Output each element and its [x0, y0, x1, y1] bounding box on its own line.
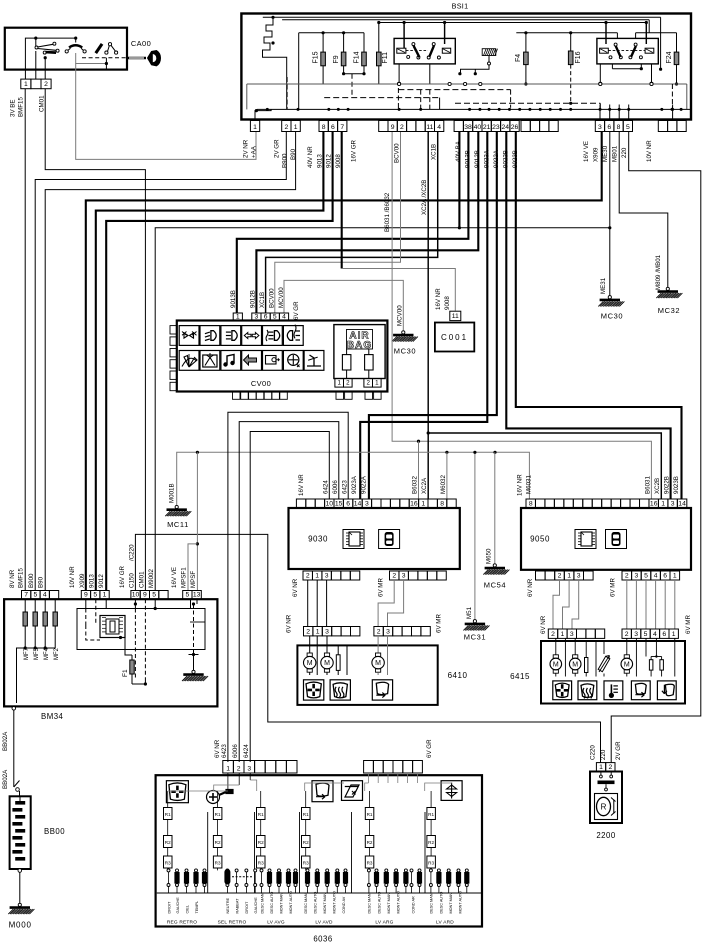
svg-text:BMF15: BMF15 — [18, 567, 25, 588]
6410 icon mirror heating — [330, 680, 350, 700]
BM34 internal ground — [192, 670, 195, 673]
svg-text:F15: F15 — [313, 51, 320, 63]
module 9030 box — [289, 508, 460, 569]
wire 9008 (BSI pin7 to C001 pin11) — [341, 132, 343, 269]
svg-text:3: 3 — [386, 628, 390, 635]
BM34 fuse bus — [20, 647, 55, 649]
rear view mirror unit 6410 box — [297, 645, 437, 705]
svg-text:6V GR: 6V GR — [293, 301, 300, 320]
svg-text:3: 3 — [634, 631, 638, 638]
6036 group partitions — [207, 812, 209, 893]
svg-text:6410: 6410 — [448, 671, 468, 680]
svg-text:F16: F16 — [575, 51, 582, 63]
svg-text:9008: 9008 — [335, 154, 342, 168]
svg-text:2: 2 — [306, 572, 310, 579]
switch contact 3 — [95, 43, 104, 54]
svg-text:C150: C150 — [129, 573, 136, 588]
svg-text:9022B: 9022B — [503, 150, 510, 168]
switch3 stub to box bottom — [105, 64, 107, 70]
svg-text:6: 6 — [663, 572, 667, 579]
svg-text:9012B: 9012B — [250, 290, 257, 308]
wire C220 (BM34 pin10 to 2200 pin1) — [135, 534, 600, 762]
plus-tick pins — [599, 105, 601, 121]
svg-text:2V GR: 2V GR — [615, 741, 622, 760]
icon front fog — [263, 326, 283, 346]
svg-text:5: 5 — [34, 592, 38, 599]
svg-text:16V VE: 16V VE — [171, 567, 178, 588]
svg-text:B90: B90 — [38, 576, 45, 588]
svg-text:M000: M000 — [9, 921, 32, 930]
svg-text:8: 8 — [617, 124, 621, 131]
svg-text:DESC AUTO: DESC AUTO — [270, 892, 274, 914]
9050 top pins — [526, 499, 535, 508]
svg-text:6: 6 — [346, 500, 350, 507]
svg-text:BMF15: BMF15 — [18, 96, 25, 117]
svg-text:B90: B90 — [290, 148, 297, 160]
svg-text:3: 3 — [247, 765, 251, 772]
svg-text:2V GR: 2V GR — [274, 139, 281, 158]
svg-text:BB02A: BB02A — [2, 731, 9, 751]
svg-text:16V GR: 16V GR — [119, 565, 126, 588]
svg-text:6V NR: 6V NR — [540, 615, 547, 634]
BM34 output to battery — [12, 707, 16, 711]
9050 chip icon — [575, 530, 596, 549]
ground MC30 (right) — [608, 296, 611, 299]
wire +AA inside CA00 — [76, 53, 107, 64]
battery BB00 — [10, 796, 31, 869]
6036 icon window — [342, 781, 363, 801]
BSI1 box — [241, 14, 691, 120]
2200 pins 1,2 — [596, 763, 605, 772]
icon high beam — [221, 326, 241, 346]
svg-text:40: 40 — [474, 124, 482, 131]
svg-text:NEUTRE: NEUTRE — [226, 897, 230, 913]
svg-text:7: 7 — [24, 592, 28, 599]
svg-text:R: R — [601, 803, 607, 812]
svg-text:23: 23 — [492, 124, 500, 131]
BM34 top pins group4 5,13 — [183, 591, 192, 600]
svg-text:16V NR: 16V NR — [435, 288, 442, 310]
svg-text:BM34: BM34 — [41, 712, 64, 721]
svg-text:F11: F11 — [382, 52, 389, 64]
wire MCV00 (CV00 pin4 to ground MC30) gray — [284, 280, 403, 331]
svg-text:6423: 6423 — [221, 744, 228, 758]
svg-text:2: 2 — [366, 380, 370, 387]
svg-text:1: 1 — [236, 313, 240, 320]
wires 9050 bottom left to 6415 jogs — [553, 580, 560, 629]
door switch panel 6036 box — [156, 775, 482, 926]
svg-text:M: M — [624, 662, 630, 669]
key mechanical dashed link — [82, 57, 127, 59]
svg-text:3: 3 — [402, 572, 406, 579]
svg-text:5: 5 — [93, 592, 97, 599]
6036 top right pins — [364, 761, 374, 774]
svg-text:6006: 6006 — [332, 480, 339, 494]
svg-text:4: 4 — [282, 313, 286, 320]
svg-text:MC32: MC32 — [658, 306, 680, 315]
icon wiper — [179, 351, 199, 371]
svg-text:1: 1 — [24, 81, 28, 88]
svg-text:R1: R1 — [303, 812, 309, 817]
svg-text:C001: C001 — [441, 333, 468, 342]
svg-text:DESC AUTO: DESC AUTO — [377, 892, 381, 914]
BSI bottom rail — [257, 108, 690, 110]
ground MC11 — [175, 505, 178, 508]
wire 9012 (BSI pin6 to BM34 pin1) — [106, 132, 332, 591]
svg-text:X909: X909 — [593, 147, 600, 162]
svg-text:CIEL: CIEL — [185, 905, 189, 913]
wire MPSF (rail to BM34 pin13) — [196, 452, 198, 590]
6036 switch group LV ARG — [365, 808, 374, 820]
AIRBAG sub box — [334, 325, 385, 379]
BM34 fuse MF7 — [24, 599, 26, 638]
svg-text:REG RETRO: REG RETRO — [167, 920, 197, 926]
svg-text:8: 8 — [322, 124, 326, 131]
6415 double element — [649, 660, 653, 670]
wire 9023B (BSI pin26 to 9050 pin14) — [516, 132, 682, 500]
svg-text:14: 14 — [354, 500, 362, 507]
svg-text:BSI1: BSI1 — [452, 2, 469, 11]
6410 top pins — [304, 627, 313, 636]
svg-text:6424: 6424 — [323, 480, 330, 494]
ground MC32 — [666, 287, 669, 290]
svg-text:MONT MAN: MONT MAN — [323, 893, 327, 914]
svg-text:DESC AUTO: DESC AUTO — [313, 892, 317, 914]
wire MB01 (BSI pin8 to ground MC32) — [619, 132, 668, 288]
svg-text:M6031: M6031 — [526, 475, 533, 494]
svg-text:M: M — [553, 662, 559, 669]
BSI connector pins row — [250, 121, 259, 132]
wire XC2B (branch to 9050 pin1) — [427, 431, 430, 434]
6415 motor 3 — [621, 658, 633, 670]
svg-text:3: 3 — [255, 313, 259, 320]
svg-text:9: 9 — [143, 592, 147, 599]
9050 bottom pins right — [622, 571, 632, 580]
icon low beam — [200, 326, 220, 346]
6036 icon window double — [441, 781, 462, 801]
svg-text:15: 15 — [335, 500, 343, 507]
icon washer — [200, 351, 220, 371]
svg-text:11: 11 — [426, 124, 433, 131]
6410 motor 2 — [321, 656, 333, 668]
svg-text:R3: R3 — [367, 861, 373, 866]
svg-text:3: 3 — [325, 628, 329, 635]
wire XC1B (BSI pin4 to CV00 pin6) — [266, 132, 438, 314]
wire M6032 branch to 9030 pin8 — [446, 452, 448, 499]
9030 bottom pins left — [303, 571, 312, 580]
9050 bottom pins left — [536, 571, 546, 580]
svg-text:8V NR: 8V NR — [9, 569, 16, 588]
svg-text:38: 38 — [464, 124, 472, 131]
icon indicator stalk — [242, 351, 262, 371]
svg-text:R2: R2 — [165, 840, 171, 845]
svg-text:7: 7 — [340, 124, 344, 131]
svg-text:F14: F14 — [354, 51, 361, 63]
battery feed zigzag — [271, 16, 274, 19]
svg-text:3: 3 — [325, 572, 329, 579]
module 9050 box — [521, 508, 691, 570]
svg-text:2V NR: 2V NR — [243, 139, 250, 158]
svg-text:1: 1 — [567, 572, 571, 579]
svg-text:R2: R2 — [215, 840, 221, 845]
fuse F15 — [299, 32, 364, 34]
svg-text:9012: 9012 — [98, 574, 105, 588]
svg-text:4: 4 — [43, 592, 47, 599]
svg-text:CM01: CM01 — [139, 571, 146, 588]
svg-text:8: 8 — [440, 500, 444, 507]
svg-text:2: 2 — [346, 380, 350, 387]
fuse F16 — [570, 33, 572, 51]
svg-text:6: 6 — [662, 631, 666, 638]
svg-text:R1: R1 — [165, 812, 171, 817]
svg-text:9023B: 9023B — [673, 476, 680, 494]
6036 switch group SEL RETRO — [213, 808, 222, 820]
svg-text:MONT MAN: MONT MAN — [387, 893, 391, 914]
svg-text:11: 11 — [452, 313, 459, 320]
svg-text:1: 1 — [337, 380, 341, 387]
svg-text:24: 24 — [501, 124, 509, 131]
svg-text:1: 1 — [421, 500, 425, 507]
svg-text:DESC MAN: DESC MAN — [368, 893, 372, 913]
svg-text:6V MR: 6V MR — [685, 615, 692, 634]
wire M51 to ground MC31 — [474, 452, 476, 621]
6415 internal wires — [555, 638, 557, 654]
svg-text:GAUCHE: GAUCHE — [254, 897, 258, 914]
hatched resistor — [482, 49, 497, 56]
C001 box — [435, 323, 474, 352]
svg-text:GAUCHE: GAUCHE — [176, 897, 180, 914]
svg-text:M650: M650 — [486, 548, 493, 564]
svg-text:MCV00: MCV00 — [397, 305, 404, 326]
svg-text:/C220: /C220 — [129, 544, 136, 561]
svg-text:LV AVD: LV AVD — [315, 920, 333, 926]
svg-text:MONT AUTO: MONT AUTO — [397, 891, 401, 913]
svg-text:1: 1 — [673, 572, 677, 579]
svg-text:9012: 9012 — [326, 154, 333, 168]
airbag bottom teeth — [336, 392, 344, 400]
BM34 top pins group1 7,5,4 — [22, 591, 31, 600]
svg-text:1: 1 — [315, 572, 319, 579]
svg-text:40V BA: 40V BA — [455, 140, 462, 162]
wire B6031/B6032 (BSI pin9 to 9030 pin16 and 9050 pin16) gray — [392, 132, 651, 500]
svg-text:9013B: 9013B — [230, 290, 237, 308]
svg-text:6036: 6036 — [313, 935, 332, 944]
wire ME30 (BSI pin6 to ground MC30 right) — [609, 132, 611, 297]
svg-text:1: 1 — [103, 592, 107, 599]
svg-text:5: 5 — [152, 592, 156, 599]
svg-text:6424: 6424 — [243, 744, 250, 758]
svg-text:M6032: M6032 — [440, 475, 447, 494]
svg-text:B6031 /B6032: B6031 /B6032 — [384, 192, 391, 232]
6410 icon mirror fold — [372, 680, 392, 700]
svg-text:9050: 9050 — [530, 535, 550, 544]
2200 switch — [600, 775, 603, 778]
airbag squib 1 — [342, 355, 351, 370]
svg-text:5: 5 — [185, 592, 189, 599]
svg-text:6V MR: 6V MR — [436, 614, 443, 633]
svg-text:16V VE: 16V VE — [583, 141, 590, 162]
svg-text:6V NR: 6V NR — [292, 578, 299, 597]
BM34 MPSF dashed to ground — [190, 599, 192, 608]
icon wiper arm — [304, 351, 324, 371]
6415 icon thermometer — [604, 681, 623, 700]
BM34 relay chip — [100, 616, 125, 638]
svg-text:ME30: ME30 — [602, 145, 609, 162]
svg-text:14: 14 — [678, 500, 686, 507]
wire B90 (BSI pin1 to BM34 pin4) — [45, 132, 295, 591]
svg-text:DESC AUTO: DESC AUTO — [439, 892, 443, 914]
airbag squib 2 — [365, 355, 374, 370]
svg-text:R1: R1 — [367, 812, 373, 817]
battery connection blade — [14, 781, 20, 788]
wires 9050 bottom right to 6415 — [626, 580, 628, 629]
wire 9022B (BSI pin24 to 9050 pin3) — [506, 132, 670, 500]
wire XC2A (BSI pin11 to 9030 pin1) — [427, 132, 429, 500]
6415 icon mirror adjust — [553, 681, 572, 700]
svg-text:XC2B: XC2B — [654, 478, 661, 494]
CV00 bottom teeth — [233, 392, 241, 400]
wires 9030 bottom left to 6410 — [307, 580, 309, 627]
svg-text:XC2A: XC2A — [421, 477, 428, 494]
svg-text:XC1B: XC1B — [259, 292, 266, 308]
fuse F4 — [516, 32, 617, 34]
wire BB02A — [13, 710, 15, 787]
svg-text:BCV00: BCV00 — [269, 288, 276, 308]
svg-text:MC54: MC54 — [484, 581, 506, 590]
6415 thermistor — [598, 656, 610, 671]
svg-text:+AA: +AA — [251, 145, 258, 158]
svg-text:16: 16 — [650, 500, 658, 507]
6415 top pins — [548, 629, 557, 638]
BSI gray rail — [247, 83, 687, 85]
svg-text:MPSF1: MPSF1 — [181, 567, 188, 588]
svg-text:R1: R1 — [428, 812, 434, 817]
ground MC54 — [493, 564, 496, 567]
svg-text:3V BE: 3V BE — [10, 99, 17, 117]
svg-text:CA00: CA00 — [131, 39, 151, 48]
wire 9012B (BSI pin40 to CV00 pin3) — [256, 132, 478, 314]
wire M9002 (BM34 pin5 to MC30 ground wire) — [155, 228, 610, 591]
svg-text:RABBAT: RABBAT — [235, 898, 239, 914]
svg-text:2: 2 — [551, 631, 555, 638]
wire MPSF1 jog to BM34 pin5 — [188, 544, 197, 591]
svg-text:DESC MAN: DESC MAN — [430, 893, 434, 913]
svg-text:2: 2 — [284, 124, 288, 131]
svg-text:9030: 9030 — [308, 535, 328, 544]
svg-text:R2: R2 — [303, 840, 309, 845]
wire 9013 (BSI pin8 to BM34 pin5) — [96, 132, 324, 591]
svg-text:1: 1 — [672, 631, 676, 638]
svg-text:6: 6 — [331, 124, 335, 131]
6036 switch group LV AVD — [302, 808, 311, 820]
svg-text:1: 1 — [599, 764, 603, 771]
svg-text:3: 3 — [570, 631, 574, 638]
svg-text:M: M — [307, 660, 313, 667]
CV00 box — [177, 321, 388, 392]
BM34 fuse F1 — [125, 638, 132, 656]
BM34 box — [4, 599, 217, 706]
svg-text:F4: F4 — [515, 54, 522, 62]
svg-text:MB01: MB01 — [612, 145, 619, 162]
svg-text:10: 10 — [132, 592, 140, 599]
svg-text:TEMPL: TEMPL — [195, 901, 199, 914]
svg-text:9023A: 9023A — [351, 475, 358, 494]
BM34 inner control box — [77, 609, 205, 650]
svg-text:9023A: 9023A — [484, 149, 491, 168]
svg-text:MONT AUTO: MONT AUTO — [332, 891, 336, 913]
svg-text:3: 3 — [365, 500, 369, 507]
svg-text:9023B: 9023B — [512, 150, 519, 168]
svg-text:6006: 6006 — [232, 744, 239, 758]
svg-text:BB02A: BB02A — [2, 769, 9, 789]
svg-text:2: 2 — [558, 572, 562, 579]
BSI top rail B — [282, 19, 649, 21]
svg-text:16V NR: 16V NR — [517, 474, 524, 496]
svg-text:26: 26 — [511, 124, 519, 131]
svg-text:220: 220 — [600, 749, 607, 760]
svg-text:MF2: MF2 — [54, 647, 60, 660]
svg-text:3: 3 — [598, 124, 602, 131]
svg-text:9022B: 9022B — [664, 476, 671, 494]
6036 switch group LV ARD — [427, 808, 436, 820]
svg-text:2: 2 — [306, 628, 310, 635]
svg-text:COND AV: COND AV — [342, 896, 346, 913]
svg-text:16V NR: 16V NR — [298, 474, 305, 496]
wire middle cell stub — [35, 51, 37, 79]
svg-text:10V NR: 10V NR — [69, 566, 76, 588]
svg-text:M: M — [572, 662, 578, 669]
BM34 top pins group3 10,9,5 — [131, 591, 140, 600]
svg-text:6V GR: 6V GR — [426, 739, 433, 758]
svg-text:MC11: MC11 — [167, 520, 189, 529]
relay 2b — [634, 43, 637, 46]
svg-text:R3: R3 — [215, 861, 221, 866]
svg-text:6: 6 — [264, 313, 268, 320]
svg-text:MPSF: MPSF — [190, 571, 197, 588]
wire B900 (BSI pin2 to BM34 pin5) — [35, 132, 286, 591]
svg-text:CV00: CV00 — [251, 379, 271, 388]
svg-text:9013: 9013 — [89, 574, 96, 588]
6036 icon mirror select joystick — [207, 790, 234, 804]
6036 switch group LV AVG — [257, 808, 266, 820]
svg-text:CM01: CM01 — [39, 95, 46, 112]
6415 icon mirror heating — [578, 681, 597, 700]
svg-text:M9002: M9002 — [148, 569, 155, 588]
rear view mirror unit 6415 box — [541, 641, 685, 704]
C001 pin 11 — [450, 311, 461, 320]
CV00 top pins 1,3,6,5,4 — [233, 313, 242, 321]
svg-text:3: 3 — [671, 500, 675, 507]
svg-text:C220: C220 — [590, 745, 597, 760]
fuse F11 — [378, 23, 380, 53]
fuse F14 — [363, 33, 365, 74]
2200 lamp icon — [595, 794, 618, 820]
wires 9030 bottom right to 6410 jogs — [378, 580, 394, 627]
svg-text:MC31: MC31 — [464, 633, 486, 642]
icon speed control — [283, 351, 303, 371]
svg-text:R3: R3 — [258, 861, 264, 866]
svg-text:9022A: 9022A — [361, 475, 368, 494]
wire M650 branch to ground MC54 — [494, 452, 496, 565]
svg-text:MONT AUTO: MONT AUTO — [459, 891, 463, 913]
key symbol — [127, 57, 146, 60]
svg-text:R2: R2 — [367, 840, 373, 845]
ignition switch CA00 box — [5, 28, 127, 70]
CA00 connector strip pins 1,2 — [21, 79, 31, 89]
svg-text:2: 2 — [377, 628, 381, 635]
svg-text:9013: 9013 — [317, 154, 324, 168]
9030 car icon — [379, 530, 400, 549]
